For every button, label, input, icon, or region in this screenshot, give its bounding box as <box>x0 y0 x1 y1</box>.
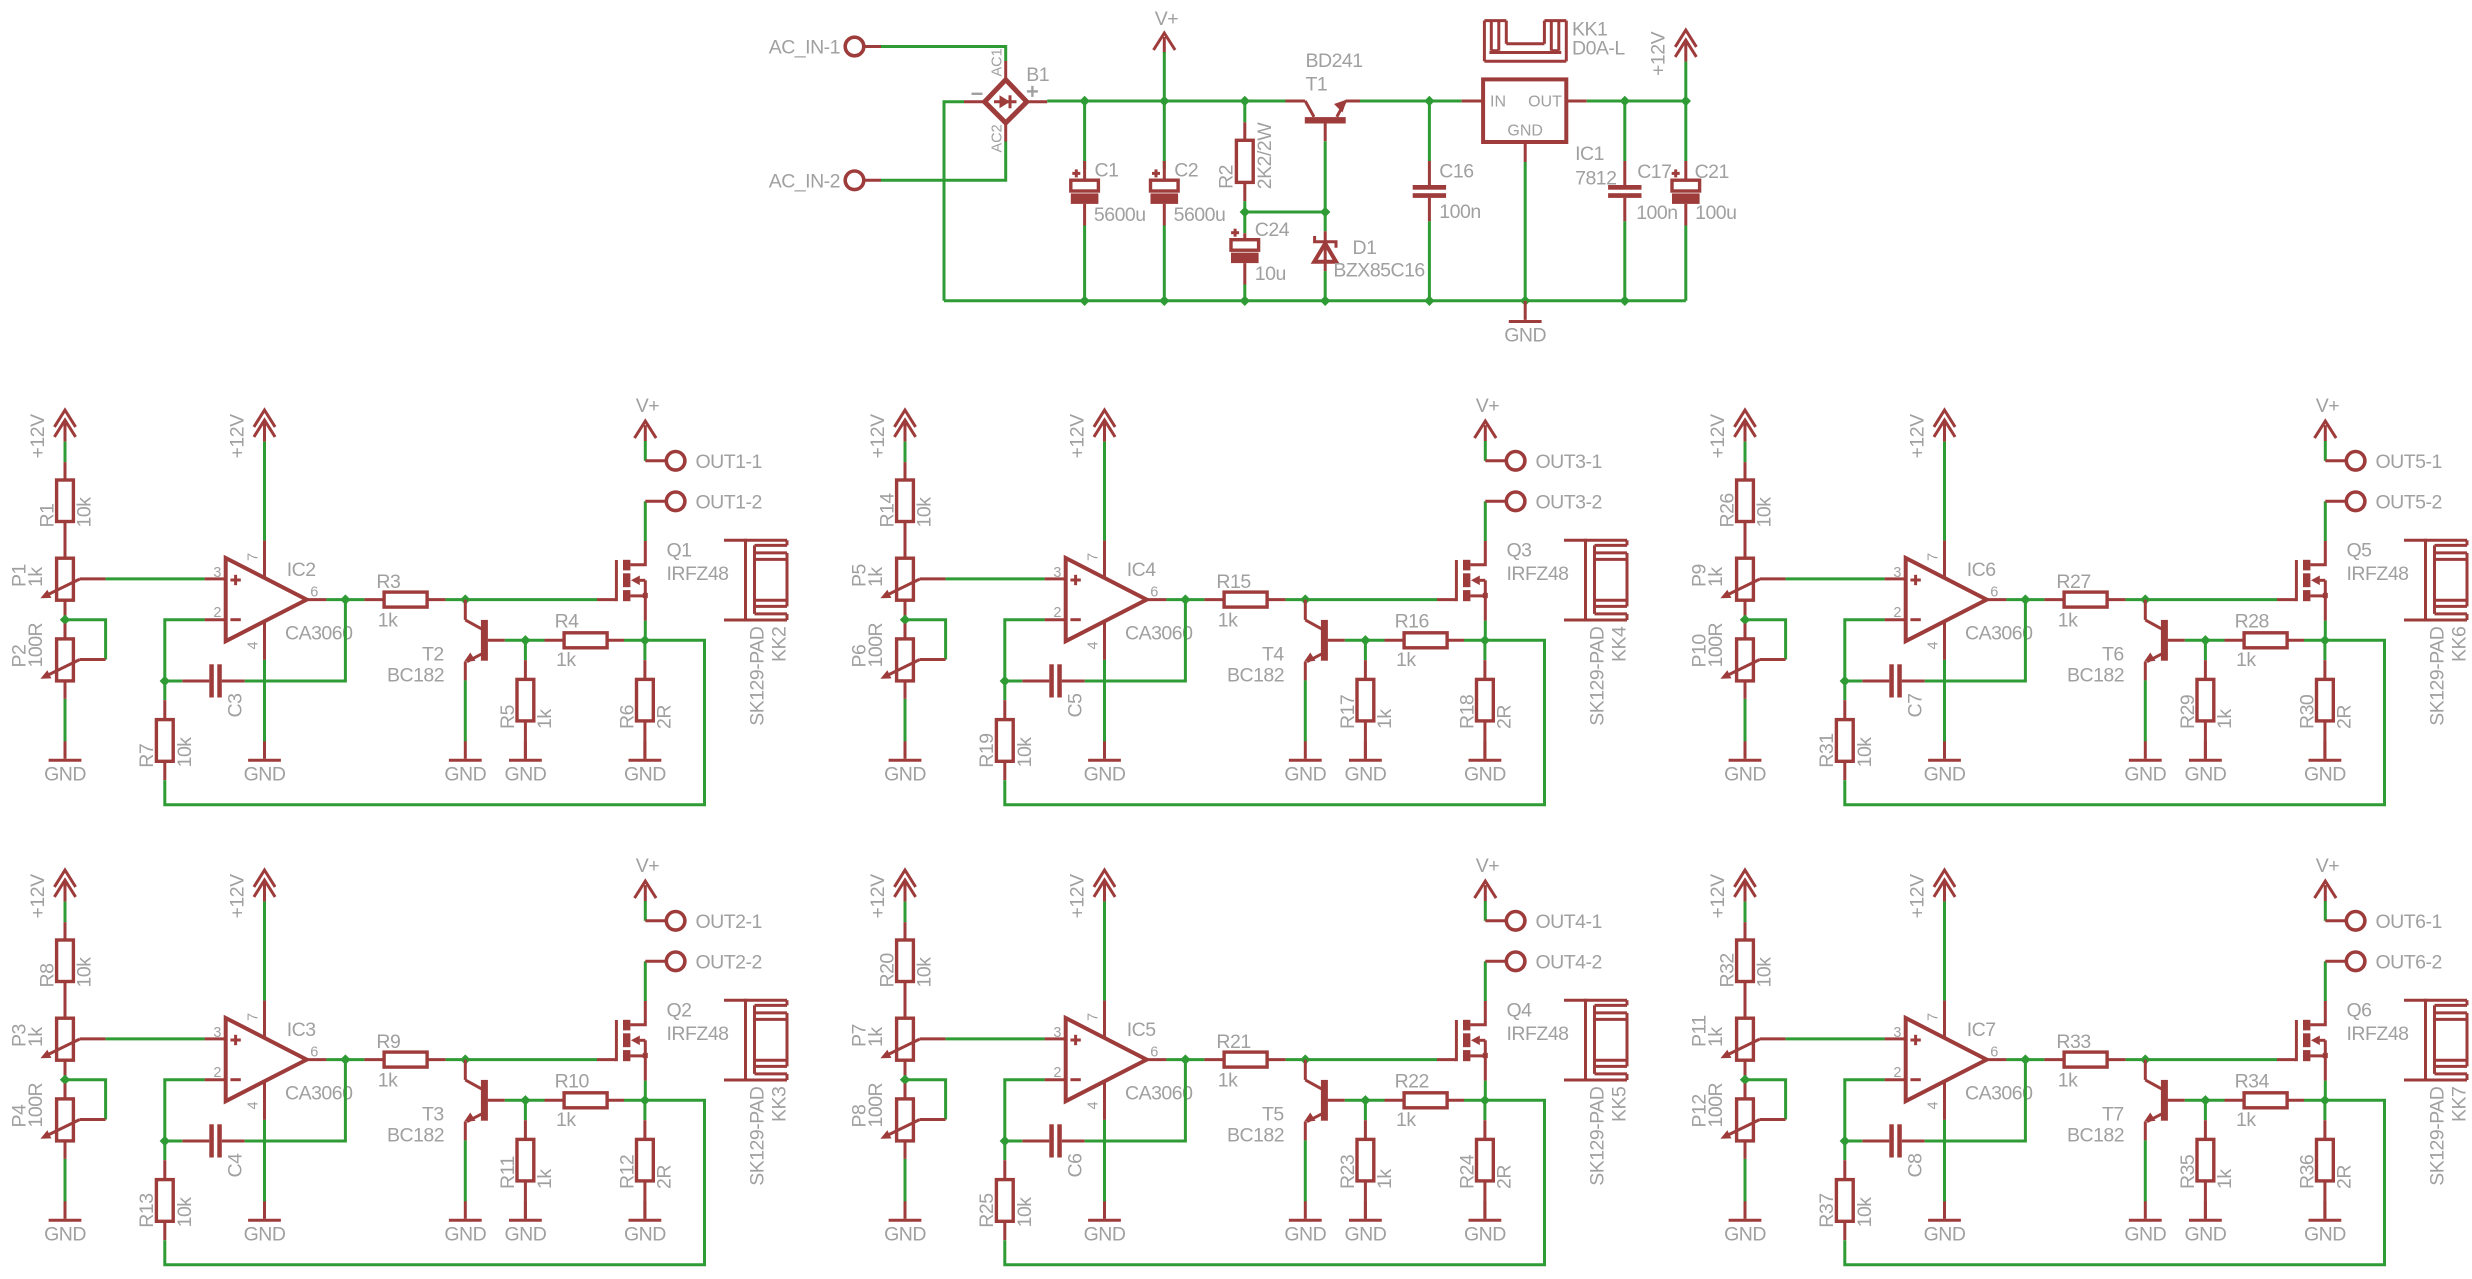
potentiometer P7 <box>880 1018 945 1060</box>
svg-text:7: 7 <box>246 553 262 561</box>
label IC4 value <box>1125 622 1193 644</box>
svg-text:IN: IN <box>1490 93 1506 110</box>
wire +12V to IC2 pin 7 <box>263 442 266 541</box>
svg-text:1k: 1k <box>1396 649 1416 671</box>
svg-text:+12V: +12V <box>1066 414 1088 459</box>
power +12V P5 column <box>867 410 916 458</box>
diode D1 <box>1314 231 1336 271</box>
pad OUT4-1 <box>1485 911 1602 933</box>
wire Q3 source <box>1484 621 1487 638</box>
label P3 <box>9 1024 31 1047</box>
resistor R24 <box>1477 1120 1494 1219</box>
ground GND R36 <box>2304 1201 2346 1245</box>
junction T6 collector <box>2140 594 2150 604</box>
label R2 value <box>1254 122 1276 189</box>
svg-text:GND: GND <box>44 1224 86 1246</box>
wire +12V to R26 <box>1744 442 1747 463</box>
label R2 <box>1216 165 1238 189</box>
svg-text:SK129-PAD: SK129-PAD <box>1587 1086 1609 1186</box>
label Q6 <box>2347 1000 2372 1022</box>
svg-text:1k: 1k <box>1374 1169 1396 1189</box>
svg-text:100R: 100R <box>25 622 47 667</box>
label IC5 pin 6 <box>1150 1045 1158 1061</box>
svg-text:4: 4 <box>1926 1101 1942 1109</box>
wire R27 to gate <box>2126 598 2277 601</box>
wire R7 top <box>163 681 166 700</box>
svg-text:C5: C5 <box>1064 693 1086 718</box>
svg-text:R34: R34 <box>2235 1071 2270 1093</box>
op-amp IC7 <box>1885 1018 2007 1101</box>
junction C2 top <box>1159 96 1169 106</box>
resistor R33 <box>2044 1052 2125 1067</box>
junction T5 collector <box>1300 1054 1310 1064</box>
wire Q4 source <box>1484 1081 1487 1098</box>
svg-text:R32: R32 <box>1717 953 1739 987</box>
junction C17 bottom <box>1620 296 1630 306</box>
svg-text:10k: 10k <box>914 957 936 988</box>
svg-text:GND: GND <box>1084 764 1126 786</box>
svg-text:Q5: Q5 <box>2347 540 2373 562</box>
resistor R19 <box>996 700 1013 780</box>
svg-text:3: 3 <box>213 1025 221 1041</box>
label IC4 <box>1127 559 1157 581</box>
pad OUT2-2 <box>645 951 762 973</box>
svg-text:+12V: +12V <box>867 874 889 919</box>
wire T4 base <box>1345 639 1385 642</box>
svg-text:KK2: KK2 <box>769 627 791 662</box>
svg-text:7: 7 <box>1926 553 1942 561</box>
label KK4 <box>1609 626 1631 662</box>
svg-text:CA3060: CA3060 <box>1965 1082 2033 1104</box>
wire R21 to gate <box>1286 1058 1437 1061</box>
label R19 value <box>1014 737 1036 768</box>
svg-text:3: 3 <box>1893 1025 1901 1041</box>
label KK5 value <box>1587 1086 1609 1186</box>
svg-text:3: 3 <box>213 565 221 581</box>
transistor Q1 <box>597 541 648 621</box>
svg-text:R31: R31 <box>1816 733 1838 767</box>
wire Q6 source <box>2324 1081 2327 1098</box>
power V+ Q5 column <box>2315 395 2340 441</box>
svg-text:R19: R19 <box>976 733 998 767</box>
ground GND T6 <box>2124 741 2166 785</box>
svg-text:GND: GND <box>1344 764 1386 786</box>
junction R11 <box>520 1095 530 1105</box>
label C4 <box>224 1153 246 1178</box>
label R33 value <box>2058 1070 2078 1092</box>
pad AC_IN-2 <box>769 170 881 192</box>
svg-text:C4: C4 <box>224 1153 246 1178</box>
svg-text:+12V: +12V <box>1707 874 1729 919</box>
label R5 <box>497 704 519 729</box>
svg-text:IRFZ48: IRFZ48 <box>2347 1023 2409 1045</box>
resistor R2 <box>1236 122 1253 201</box>
label R32 <box>1717 953 1739 987</box>
label C2 <box>1174 160 1198 182</box>
svg-text:2: 2 <box>1053 605 1061 621</box>
label Q5 value <box>2347 563 2409 585</box>
junction IC7 output <box>2020 1054 2030 1064</box>
svg-text:GND: GND <box>504 764 546 786</box>
svg-text:Q6: Q6 <box>2347 1000 2372 1022</box>
op-amp IC7 pin 4 <box>1926 1081 1945 1120</box>
svg-text:1k: 1k <box>534 1169 556 1189</box>
label C7 <box>1904 694 1926 718</box>
label P2 value <box>25 622 47 667</box>
wire IC5 pin 4 to ground <box>1103 1120 1106 1202</box>
svg-text:OUT1-1: OUT1-1 <box>696 451 762 473</box>
power +12V top <box>1648 30 1697 76</box>
label IC3 value <box>285 1082 353 1104</box>
wire C16 bottom <box>1428 221 1431 300</box>
svg-text:GND: GND <box>1284 764 1326 786</box>
op-amp IC2 <box>205 558 327 641</box>
power +12V P11 column <box>1707 870 1756 918</box>
label P1 value <box>25 567 47 587</box>
label IC3 pin 3 <box>213 1025 221 1041</box>
svg-text:R25: R25 <box>976 1193 998 1228</box>
capacitor C24 <box>1231 229 1259 285</box>
svg-text:10k: 10k <box>1014 737 1036 768</box>
label R22 <box>1395 1071 1429 1093</box>
ground GND R18 <box>1464 741 1506 785</box>
transistor Q2 <box>597 1001 648 1081</box>
wire C7 left <box>1845 680 1863 683</box>
label T6 value <box>2067 664 2124 686</box>
label KK5 <box>1609 1086 1631 1122</box>
label R7 value <box>174 737 196 768</box>
svg-text:10k: 10k <box>174 1197 196 1228</box>
capacitor C16 <box>1413 161 1446 221</box>
label R17 value <box>1374 709 1396 729</box>
pad OUT1-2 <box>645 491 762 513</box>
label R26 value <box>1754 497 1776 528</box>
power +12V IC4 column <box>1066 410 1115 458</box>
label R14 <box>877 493 899 528</box>
op-amp IC5 pin 4 <box>1086 1081 1105 1120</box>
svg-text:1k: 1k <box>1705 567 1727 587</box>
svg-text:1k: 1k <box>534 709 556 729</box>
wire IC2 inverting input <box>165 620 205 681</box>
label R16 value <box>1396 649 1416 671</box>
label IC2 pin 6 <box>310 585 318 601</box>
resistor R8 <box>57 922 74 1018</box>
junction D1 top <box>1320 207 1330 217</box>
wire T1 base down <box>1324 141 1327 212</box>
svg-text:R37: R37 <box>1816 1193 1838 1227</box>
wire R23 top <box>1364 1100 1367 1120</box>
wire IC3 pin 4 to ground <box>263 1120 266 1202</box>
wire IC6 inverting input <box>1845 620 1885 681</box>
label KK7 <box>2449 1087 2471 1122</box>
label C24 <box>1255 219 1290 241</box>
potentiometer P10 <box>1720 624 1785 681</box>
power +12V P9 column <box>1707 410 1756 458</box>
resistor R32 <box>1737 922 1754 1018</box>
label R23 value <box>1374 1169 1396 1189</box>
svg-text:R18: R18 <box>1456 695 1478 729</box>
wire R16 to source node <box>1464 639 1485 642</box>
resistor R26 <box>1737 462 1754 558</box>
label P4 value <box>25 1082 47 1127</box>
label C5 <box>1064 693 1086 718</box>
label T6 <box>2102 644 2124 666</box>
svg-text:5600u: 5600u <box>1174 204 1226 226</box>
resistor R36 <box>2317 1120 2334 1219</box>
junction R5 <box>520 635 530 645</box>
capacitor C6 <box>1022 1124 1084 1157</box>
svg-text:C3: C3 <box>224 694 246 718</box>
wire R13 top <box>163 1141 166 1160</box>
svg-text:R4: R4 <box>555 611 580 633</box>
svg-text:R8: R8 <box>37 964 59 988</box>
junction C17 top <box>1620 96 1630 106</box>
heatsink KK6 <box>2404 539 2467 622</box>
wire IC7 inverting input <box>1845 1080 1885 1141</box>
wire feedback rail <box>1005 640 1545 804</box>
label IC2 pin 2 <box>213 605 221 621</box>
wire R31 top <box>1843 681 1846 700</box>
junction C7 <box>1840 676 1850 686</box>
svg-text:+12V: +12V <box>1648 31 1670 76</box>
resistor R21 <box>1204 1052 1285 1067</box>
svg-text:R7: R7 <box>136 744 158 768</box>
power +12V P3 column <box>27 870 76 918</box>
wire C8 to output <box>1925 1060 2026 1141</box>
label P10 value <box>1705 622 1727 667</box>
svg-text:4: 4 <box>1926 641 1942 649</box>
label R7 <box>136 744 158 768</box>
wire R28 to source node <box>2304 639 2325 642</box>
svg-text:IC7: IC7 <box>1967 1019 1996 1041</box>
svg-text:GND: GND <box>44 764 86 786</box>
junction R2 C24 <box>1240 207 1250 217</box>
svg-text:4: 4 <box>246 1101 262 1109</box>
wire Q1 drain <box>644 501 647 541</box>
resistor R3 <box>364 592 445 607</box>
svg-text:2R: 2R <box>1493 705 1515 729</box>
svg-text:GND: GND <box>1464 764 1506 786</box>
resistor R18 <box>1477 660 1494 759</box>
svg-text:R16: R16 <box>1395 611 1429 633</box>
wire feedback rail <box>1845 640 2385 804</box>
svg-text:V+: V+ <box>1155 8 1179 30</box>
power V+ Q4 column <box>1475 855 1500 901</box>
wire C17 to C21 top <box>1625 100 1686 103</box>
svg-text:6: 6 <box>1150 585 1158 601</box>
wire V+ to rail <box>1163 52 1166 101</box>
wire +12V to IC6 pin 7 <box>1943 442 1946 541</box>
svg-text:GND: GND <box>504 1224 546 1246</box>
label Q2 <box>667 1000 692 1022</box>
wire IC7 output <box>2006 1058 2044 1061</box>
svg-text:IC4: IC4 <box>1127 559 1157 581</box>
svg-text:OUT5-1: OUT5-1 <box>2376 451 2442 473</box>
label T5 value <box>1227 1124 1284 1146</box>
pad OUT4-2 <box>1485 951 1602 973</box>
svg-text:R2: R2 <box>1216 165 1238 189</box>
junction P2 top <box>60 615 70 625</box>
power V+ Q3 column <box>1475 395 1500 441</box>
ground GND T7 <box>2124 1201 2166 1245</box>
label C16 value <box>1439 201 1480 223</box>
op-amp IC2 pin 7 <box>246 541 265 579</box>
wire T3 emitter to ground <box>464 1140 467 1201</box>
wire P1 to P2 <box>64 600 67 620</box>
wire P2 to ground <box>64 681 67 742</box>
op-amp IC2 pin 4 <box>246 621 265 660</box>
junction source node <box>1480 1095 1490 1105</box>
label IC6 value <box>1965 622 2033 644</box>
power +12V IC3 column <box>226 870 275 918</box>
svg-text:V+: V+ <box>1476 395 1500 417</box>
svg-text:OUT6-1: OUT6-1 <box>2376 911 2442 933</box>
ground GND R29 <box>2184 741 2226 785</box>
svg-text:3: 3 <box>1893 565 1901 581</box>
label R15 value <box>1218 610 1238 632</box>
op-amp IC6 <box>1885 558 2007 641</box>
label P8 <box>849 1105 871 1128</box>
label IC1 <box>1575 143 1604 165</box>
wire IC4 inverting input <box>1005 620 1045 681</box>
label R31 <box>1816 733 1838 767</box>
svg-text:10k: 10k <box>1854 737 1876 768</box>
svg-text:SK129-PAD: SK129-PAD <box>2427 626 2449 726</box>
label T7 value <box>2067 1124 2124 1146</box>
wire C21 top <box>1684 101 1687 161</box>
label R33 <box>2056 1031 2090 1053</box>
label R36 <box>2296 1155 2318 1189</box>
svg-text:R3: R3 <box>376 571 400 593</box>
svg-text:10k: 10k <box>74 957 96 988</box>
wire R24 top <box>1483 1100 1486 1120</box>
svg-text:1k: 1k <box>2214 1169 2236 1189</box>
wire IC3 output <box>326 1058 364 1061</box>
junction T2 collector <box>460 594 470 604</box>
label IC4 pin 3 <box>1053 565 1061 581</box>
svg-text:IRFZ48: IRFZ48 <box>667 563 729 585</box>
svg-text:Q4: Q4 <box>1507 1000 1533 1022</box>
wire bottom rail <box>944 299 1686 302</box>
svg-text:100R: 100R <box>865 1082 887 1127</box>
junction P4 top <box>60 1075 70 1085</box>
label IC3 pin 2 <box>213 1065 221 1081</box>
label IC1 value <box>1575 168 1616 190</box>
svg-text:GND: GND <box>444 1224 486 1246</box>
label IC6 pin 6 <box>1990 585 1998 601</box>
junction P10 top <box>1740 615 1750 625</box>
resistor R25 <box>996 1160 1013 1240</box>
wire C4 to output <box>245 1060 346 1141</box>
label P5 <box>849 563 871 587</box>
svg-text:T3: T3 <box>422 1104 444 1126</box>
svg-text:CA3060: CA3060 <box>285 622 353 644</box>
label AC1 <box>989 48 1005 76</box>
svg-text:OUT3-1: OUT3-1 <box>1536 451 1602 473</box>
resistor R9 <box>364 1052 445 1067</box>
label T3 <box>422 1104 444 1126</box>
svg-text:C7: C7 <box>1904 694 1926 718</box>
wire Q2 source <box>644 1081 647 1098</box>
svg-text:7: 7 <box>1926 1013 1942 1021</box>
svg-text:GND: GND <box>2304 1224 2346 1246</box>
heatsink KK5 <box>1564 999 1627 1082</box>
svg-text:CA3060: CA3060 <box>1125 622 1193 644</box>
label R21 <box>1216 1031 1250 1053</box>
svg-text:2R: 2R <box>2333 705 2355 729</box>
wire feedback rail <box>165 640 705 804</box>
label R8 <box>37 964 59 988</box>
junction C6 <box>1000 1136 1010 1146</box>
ground GND IC4 <box>1084 741 1126 785</box>
svg-text:IC2: IC2 <box>287 559 316 581</box>
op-amp IC5 pin 7 <box>1086 1001 1105 1039</box>
junction C21 top <box>1681 96 1691 106</box>
svg-text:6: 6 <box>310 1045 318 1061</box>
svg-text:R22: R22 <box>1395 1071 1429 1093</box>
svg-text:4: 4 <box>1086 1101 1102 1109</box>
wire T2 base <box>505 639 545 642</box>
svg-text:GND: GND <box>1504 325 1546 347</box>
wire R9 to gate <box>446 1058 597 1061</box>
junction C16 top <box>1424 96 1434 106</box>
junction IC5 output <box>1180 1054 1190 1064</box>
junction source node <box>1480 635 1490 645</box>
wire C8 left <box>1845 1140 1863 1143</box>
junction source node <box>2320 1095 2330 1105</box>
capacitor C8 <box>1862 1124 1924 1157</box>
svg-text:GND: GND <box>1924 1224 1966 1246</box>
wire V+ to OUT2-1 <box>644 901 647 921</box>
junction IC3 output <box>340 1054 350 1064</box>
transistor T4 <box>1304 600 1345 681</box>
svg-text:GND: GND <box>624 764 666 786</box>
svg-text:CA3060: CA3060 <box>1125 1082 1193 1104</box>
label R13 value <box>174 1197 196 1228</box>
label P12 value <box>1705 1082 1727 1127</box>
svg-text:BD241: BD241 <box>1306 50 1363 72</box>
wire T6 emitter to ground <box>2144 680 2147 741</box>
svg-text:100n: 100n <box>1636 202 1677 224</box>
wire P2 wiper loop <box>65 620 106 660</box>
svg-text:R21: R21 <box>1216 1031 1250 1053</box>
resistor R10 <box>545 1093 625 1108</box>
label R28 <box>2235 611 2269 633</box>
svg-text:AC2: AC2 <box>989 124 1005 152</box>
svg-text:1k: 1k <box>1218 1070 1238 1092</box>
junction C8 <box>1840 1136 1850 1146</box>
svg-text:OUT3-2: OUT3-2 <box>1536 491 1602 513</box>
label KK4 value <box>1587 626 1609 726</box>
wire P6 wiper loop <box>905 620 946 660</box>
potentiometer P12 <box>1720 1084 1785 1141</box>
junction P8 top <box>900 1075 910 1085</box>
label P1 <box>9 564 31 587</box>
label Q3 <box>1507 540 1532 562</box>
pad OUT6-2 <box>2325 951 2442 973</box>
svg-text:R9: R9 <box>376 1031 400 1053</box>
label Q6 value <box>2347 1023 2409 1045</box>
label P7 <box>849 1024 871 1047</box>
svg-text:2R: 2R <box>2333 1165 2355 1189</box>
ground GND P8 <box>884 1201 926 1245</box>
wire P4 to ground <box>64 1141 67 1202</box>
svg-text:1k: 1k <box>2214 709 2236 729</box>
svg-text:100R: 100R <box>1705 622 1727 667</box>
svg-text:R5: R5 <box>497 704 519 729</box>
svg-text:1k: 1k <box>25 567 47 587</box>
svg-text:6: 6 <box>310 585 318 601</box>
